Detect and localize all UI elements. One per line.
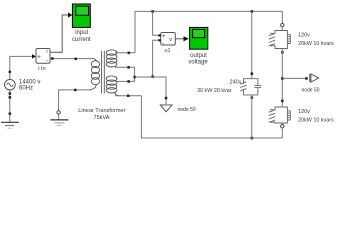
load block 240v 30kW 20kvar (parallel RC icon) <box>240 79 261 95</box>
svg-text:75kVA: 75kVA <box>93 115 109 121</box>
port dot ground1 top <box>9 112 12 115</box>
load block 120v 20kW 10kvars (load2) <box>269 107 291 123</box>
port dot node50 bottom <box>165 97 168 100</box>
svg-text:Linear Transformer: Linear Transformer <box>78 108 125 114</box>
capacitor plates 240v load <box>254 84 261 86</box>
svg-text:+: + <box>162 34 166 40</box>
wire top bus from transformer sec1+ to load1 top <box>135 11 282 52</box>
svg-text:120v: 120v <box>298 32 310 38</box>
port dot load1 bottom <box>281 51 284 54</box>
load block 120v 20kW 10kvars (load1) <box>269 31 291 49</box>
port dot load2 top <box>281 100 284 103</box>
node block node 50 right <box>310 74 319 82</box>
port circle load1 top <box>281 23 284 26</box>
wire i-in signal out to scope1 <box>50 15 69 52</box>
port dot i-in minus <box>51 57 54 60</box>
port dot transformer sec1 minus <box>127 66 129 69</box>
wire sec2 minus <box>115 95 141 97</box>
port dot source-ground mid <box>9 96 12 99</box>
port circle load2 bottom <box>281 125 284 128</box>
wire load2 bottom stub <box>281 123 283 138</box>
node junction top 240v tap <box>251 10 254 13</box>
wire sec1 minus <box>115 67 135 77</box>
wire node50 right tap <box>282 77 306 79</box>
wire bottom bus <box>141 96 282 138</box>
node junction top u1 tap <box>151 10 154 13</box>
wire load1 top stub <box>281 27 283 31</box>
wire u1 output signal <box>175 38 184 40</box>
svg-text:v: v <box>169 37 172 43</box>
svg-text:voltage: voltage <box>188 60 208 66</box>
node junction tap wire u1 minus <box>151 75 154 78</box>
transformer T1 secondary winding 1 <box>106 50 117 67</box>
svg-text:i in: i in <box>38 66 45 72</box>
wire transformer primary minus to ground2 <box>59 90 90 111</box>
transformer T1 secondary winding 2 <box>106 76 119 96</box>
svg-text:node 50: node 50 <box>178 107 196 113</box>
ground G2 <box>50 114 68 125</box>
node block node 50 bottom (triangle) <box>160 105 172 112</box>
wire 240v load bottom drop <box>251 95 253 138</box>
current measurement block i in <box>36 49 50 65</box>
port dot transformer sec1 plus <box>128 52 131 55</box>
svg-text:+: + <box>37 55 41 61</box>
svg-text:-: - <box>162 41 164 47</box>
svg-text:120v: 120v <box>298 109 310 115</box>
wire center tap to node50 <box>135 77 166 104</box>
inductor coil load1 <box>287 33 290 46</box>
wire u1 plus drop <box>153 11 160 35</box>
svg-text:u1: u1 <box>164 48 170 54</box>
voltage measurement U1 <box>158 33 175 47</box>
resistor zigzag load1 <box>269 33 275 46</box>
wire i-in minus to transformer primary <box>50 58 93 60</box>
svg-text:-: - <box>46 59 48 65</box>
node junction bottom bus 240v <box>251 137 254 140</box>
wire sec2 plus <box>115 77 135 81</box>
arrowhead into scope1 <box>68 12 72 17</box>
wire sec1+ horizontal <box>115 52 135 54</box>
ground G2 port circle <box>57 111 60 114</box>
wire u1 minus drop <box>153 40 160 76</box>
svg-text:240v: 240v <box>230 80 242 86</box>
wire source bottom to ground <box>9 95 11 123</box>
transformer T1 primary winding <box>90 59 100 90</box>
ac voltage source 14400v <box>5 71 16 95</box>
resistor zigzag load2 <box>269 110 275 123</box>
svg-text:60Hz: 60Hz <box>19 85 33 91</box>
resistor zigzag 240v load <box>240 80 247 92</box>
wire source top to i-in plus <box>10 56 33 70</box>
port dot 240v load bottom <box>251 96 254 99</box>
svg-text:output: output <box>190 53 207 59</box>
port dot transformer primary plus <box>75 58 78 61</box>
scope U2 output voltage <box>190 27 208 49</box>
port dot node50 right <box>305 77 308 80</box>
inductor coil load2 <box>287 110 290 123</box>
arrowhead into scope2 <box>184 36 189 41</box>
ground G1 <box>1 122 19 128</box>
svg-text:30 kW 20 kvar: 30 kW 20 kvar <box>197 88 232 94</box>
scope U3 input current <box>72 4 90 27</box>
svg-text:20kW 10 kvars: 20kW 10 kvars <box>298 41 334 47</box>
arrowhead into i-in plus port <box>32 54 36 58</box>
svg-text:current: current <box>72 37 91 43</box>
node junction node50 tap right <box>281 77 284 80</box>
port dot 240v load top <box>251 72 254 75</box>
port dot transformer sec2 plus <box>127 80 129 83</box>
svg-text:node 50: node 50 <box>301 88 319 94</box>
port dot transformer sec2 minus <box>127 95 130 98</box>
node junction center tap <box>133 76 136 79</box>
transformer T1 core <box>102 51 105 94</box>
wire load1 bottom to load2 top <box>281 49 283 108</box>
svg-text:i: i <box>46 49 47 55</box>
port dot transformer primary minus <box>74 89 77 92</box>
svg-text:input: input <box>75 30 88 36</box>
wire 240v load top drop <box>251 11 253 78</box>
svg-text:20kW 10 kvars: 20kW 10 kvars <box>298 118 334 124</box>
